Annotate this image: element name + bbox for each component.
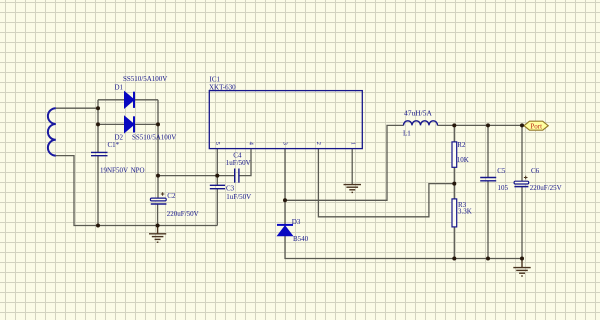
- ground under C2: [149, 226, 166, 243]
- svg-text:C5: C5: [497, 167, 506, 175]
- diode D2: [125, 116, 135, 132]
- svg-text:R2: R2: [457, 141, 466, 149]
- svg-text:L1: L1: [403, 129, 411, 137]
- junction coil top / left vertical: [96, 106, 100, 110]
- coil (transmitter winding): [48, 108, 56, 155]
- wire R2 top stub: [453, 125, 455, 141]
- wire D3 bottom to right rail: [285, 236, 522, 259]
- wire C6 top stub: [521, 125, 523, 181]
- junction C6 top / Port: [520, 123, 524, 127]
- svg-text:D3: D3: [292, 218, 301, 226]
- svg-text:5: 5: [214, 142, 221, 145]
- svg-text:XKT-630: XKT-630: [209, 83, 236, 91]
- wire mid row C4 left: [158, 175, 235, 177]
- resistor R3: [452, 199, 457, 227]
- svg-text:1uF/50V: 1uF/50V: [226, 193, 251, 201]
- junction L1 / R2 top: [452, 123, 456, 127]
- junction R3 bottom rail: [452, 257, 456, 261]
- junction C1 bottom rail: [96, 224, 100, 228]
- wire C3 vertical: [216, 176, 218, 186]
- wire pin2 run: [318, 149, 454, 217]
- capacitor C1: [91, 152, 108, 155]
- svg-text:C1*: C1*: [108, 141, 120, 149]
- wire C6 bottom stub: [521, 187, 523, 259]
- svg-text:Port: Port: [530, 122, 542, 130]
- diode D1: [125, 92, 135, 108]
- junction C5 top: [486, 123, 490, 127]
- wire left vertical (D1 row down to C1): [97, 100, 99, 152]
- svg-text:C3: C3: [226, 185, 235, 193]
- ground under C6: [513, 259, 530, 277]
- svg-text:47uH/5A: 47uH/5A: [404, 108, 433, 117]
- capacitor C5: [480, 178, 496, 181]
- junction D2 anode: [96, 122, 100, 126]
- wire D2 anode: [98, 123, 125, 125]
- junction R2 R3 pin2 net: [452, 182, 456, 186]
- wire coil bottom to ground rail: [56, 156, 218, 226]
- wire D1 anode: [98, 99, 125, 101]
- svg-text:IC1: IC1: [210, 75, 221, 83]
- wire pin5: [216, 149, 218, 176]
- wire D3 top: [284, 200, 286, 224]
- wire pin1 to ground: [351, 149, 353, 185]
- junction pin5 / C4 / C3: [215, 174, 219, 178]
- svg-text:C2: C2: [167, 192, 176, 200]
- junction right vertical mid row: [156, 174, 160, 178]
- wire C4 right to pin4: [239, 149, 251, 176]
- wire D3 junction to L1 riser: [285, 125, 404, 200]
- wire R3 bottom stub: [453, 227, 455, 259]
- junction C2 bottom rail: [156, 224, 160, 228]
- wire L1 right to Port: [438, 124, 525, 126]
- svg-text:NPO: NPO: [131, 166, 145, 174]
- svg-text:10K: 10K: [457, 156, 469, 164]
- junction D2 cathode: [156, 122, 160, 126]
- wire C5 bottom stub: [487, 181, 489, 259]
- wire right vertical D1 row to C2: [157, 100, 159, 198]
- junction C6 bottom rail: [520, 257, 524, 261]
- svg-text:220uF/25V: 220uF/25V: [530, 184, 562, 192]
- svg-text:C6: C6: [531, 167, 540, 175]
- svg-text:B540: B540: [293, 235, 309, 243]
- svg-text:3: 3: [281, 142, 288, 145]
- ground near pin1: [344, 185, 362, 193]
- wire D1 cathode to right vertical: [134, 99, 158, 101]
- wire C2 bottom: [157, 204, 159, 226]
- svg-text:2: 2: [315, 142, 322, 145]
- capacitor C3: [210, 185, 225, 188]
- resistor R2: [452, 142, 457, 167]
- svg-text:D1: D1: [115, 84, 124, 92]
- capacitor C6 (polarized): [514, 176, 529, 187]
- wire coil top to left vertical: [56, 107, 98, 109]
- wire D2 cathode to right vertical: [134, 123, 158, 125]
- IC U1 box (XKT-630): [209, 91, 362, 149]
- svg-text:105: 105: [498, 184, 509, 192]
- wire R2 bottom / R3 top stubs: [453, 167, 455, 199]
- diode D3: [277, 225, 293, 236]
- junction pin3 / D3: [283, 198, 287, 202]
- wire C3 bottom: [216, 189, 218, 226]
- port Port: [524, 121, 548, 130]
- svg-text:19NF50V: 19NF50V: [100, 166, 128, 174]
- svg-text:SS510/5A100V: SS510/5A100V: [132, 134, 176, 142]
- svg-text:1: 1: [349, 142, 356, 145]
- inductor L1: [404, 121, 438, 126]
- svg-text:220uF/50V: 220uF/50V: [167, 210, 199, 218]
- capacitor C4: [235, 169, 239, 183]
- junction C5 bottom rail: [486, 257, 490, 261]
- svg-text:3.3K: 3.3K: [458, 208, 472, 216]
- svg-text:1uF/50V: 1uF/50V: [226, 159, 251, 167]
- wire C1 bottom: [97, 156, 99, 226]
- wire C5 top stub: [487, 125, 489, 177]
- capacitor C2 (polarized): [150, 192, 166, 204]
- wire pin3 to D3 junction: [284, 149, 286, 201]
- svg-text:SS510/5A100V: SS510/5A100V: [123, 75, 167, 83]
